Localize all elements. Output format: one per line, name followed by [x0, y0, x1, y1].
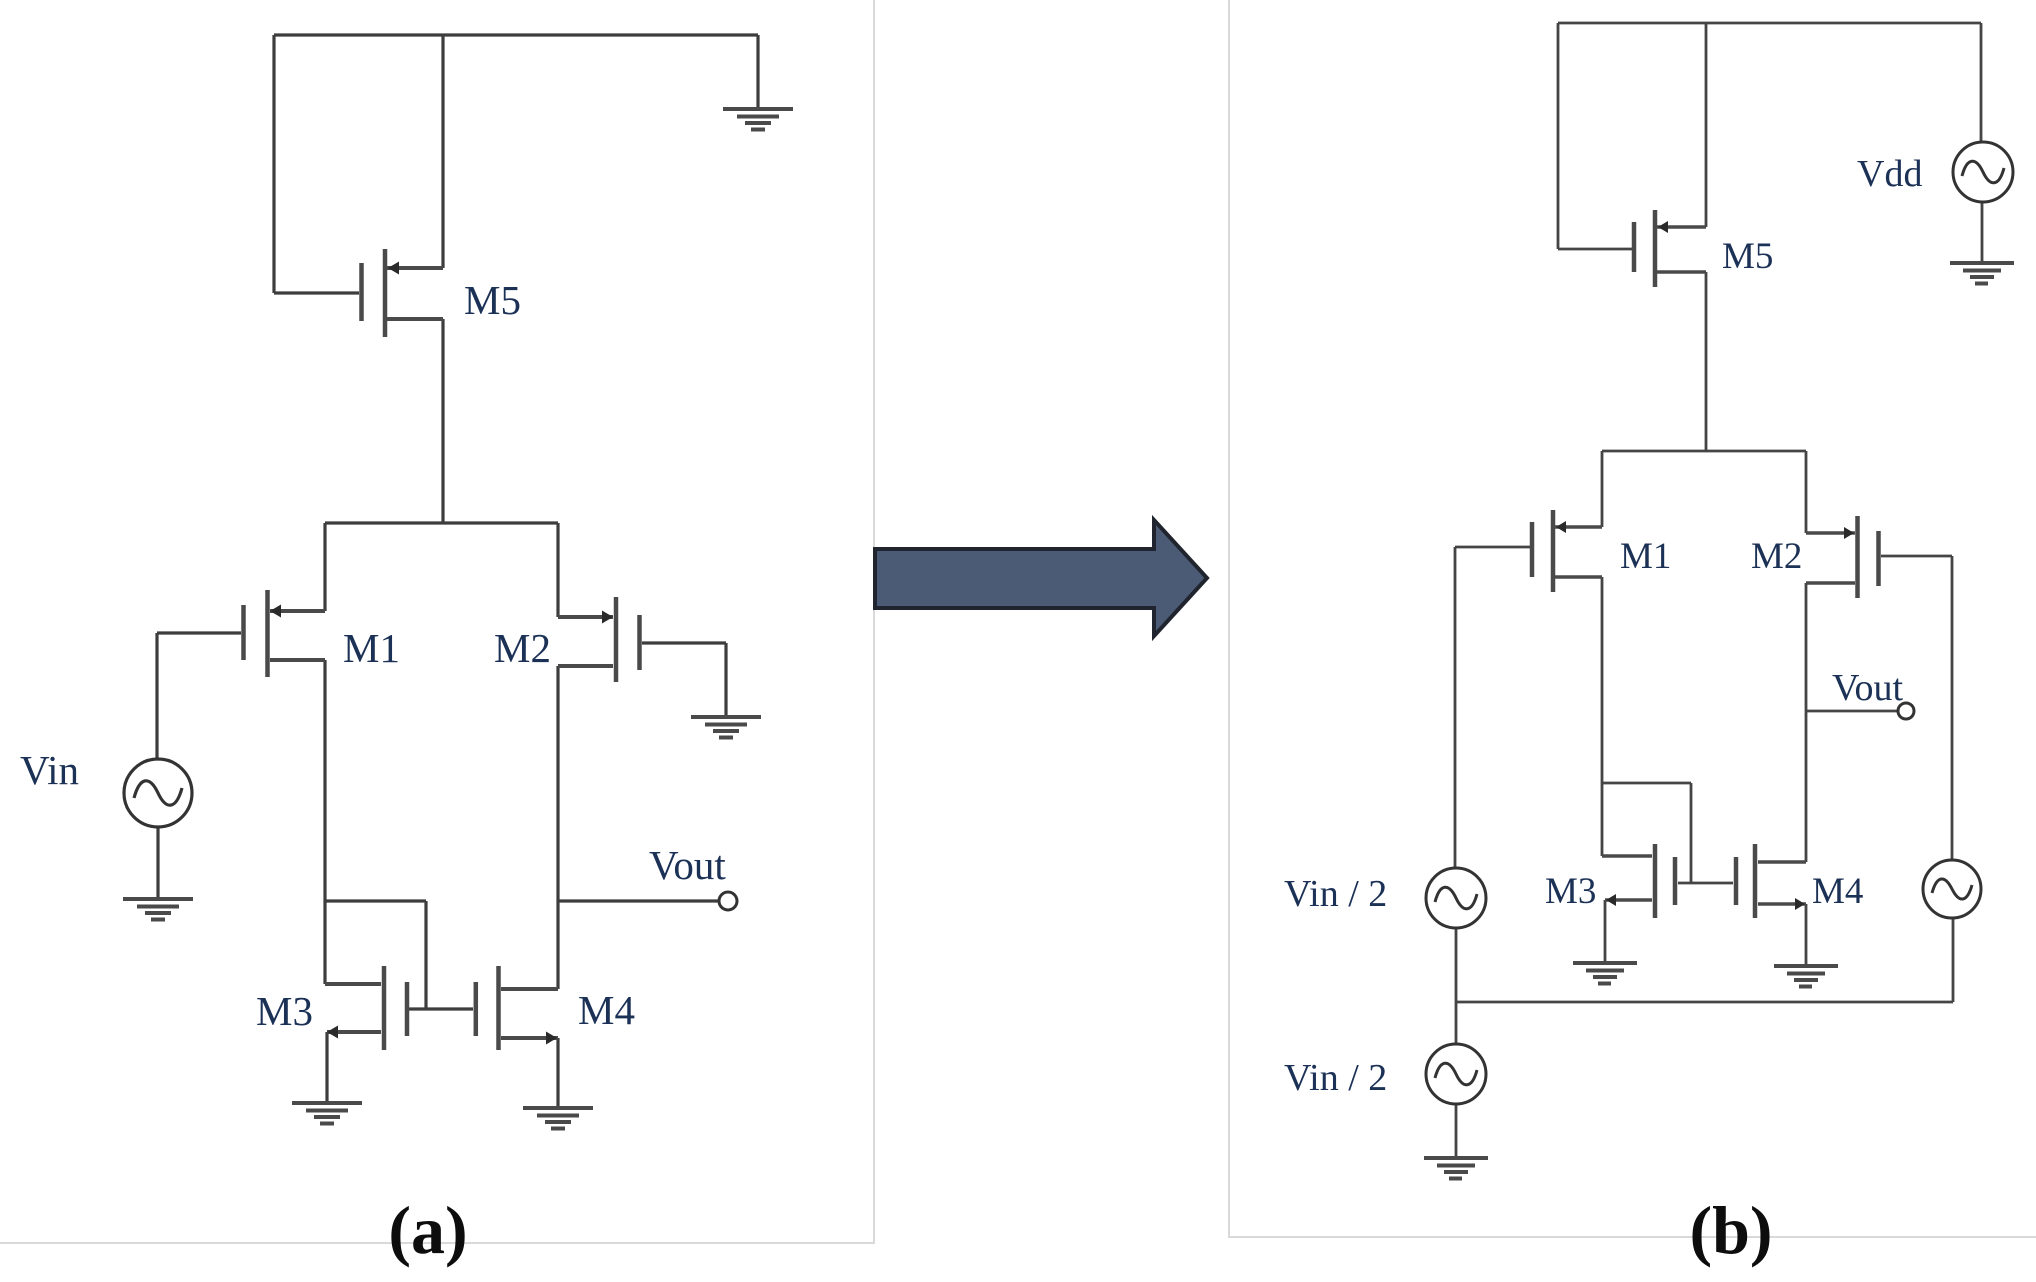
- transistor M2 (b): [1806, 516, 1879, 598]
- svg-text:M4: M4: [1812, 871, 1863, 912]
- wire: (b) M3 drain-gate tie horizontal: [1602, 782, 1691, 785]
- transform arrow between figures: [875, 520, 1207, 636]
- wire: (a) M2 source down to M4 drain / Vout node: [556, 666, 559, 989]
- wire: (a) M3 drain-gate tie horizontal: [325, 899, 426, 902]
- figure (b) frame border: [1229, 0, 2036, 1237]
- source upper Vin/2 (b): [1426, 868, 1486, 928]
- wire: (b) Vdd source to ground: [1981, 202, 1984, 263]
- svg-text:Vout: Vout: [1832, 667, 1904, 709]
- wire: (b) M5 source to diff-pair rail: [1705, 272, 1708, 451]
- wire: (a) M5 gate lead: [274, 291, 359, 294]
- wire: (a) rail to M2 drain: [556, 523, 559, 617]
- transistor M4 (a): [476, 966, 558, 1050]
- wire: (b) M5 gate lead: [1558, 248, 1632, 251]
- wire: (a) M1 gate lead to Vin: [157, 631, 241, 634]
- ground: (a) M3 source: [292, 1101, 362, 1126]
- wire: (b) right source up to M2 gate: [1951, 556, 1954, 860]
- wire: (a) top rail: [274, 33, 758, 36]
- ground: (a) M2 gate: [691, 715, 761, 740]
- wire: (a) M4 source to ground: [556, 1038, 559, 1108]
- wire: (a) top rail to ground drop: [756, 35, 759, 109]
- wire: (b) M3-M4 gate link: [1678, 882, 1733, 885]
- figure (a) frame border: [0, 0, 874, 1243]
- svg-text:M2: M2: [1751, 536, 1802, 577]
- wire: (b) M2 gate lead: [1881, 555, 1952, 558]
- wire: (b) Vout stub: [1806, 710, 1898, 713]
- wire: (b) rail to M1 drain: [1601, 451, 1604, 527]
- svg-text:(b): (b): [1689, 1192, 1772, 1268]
- wire: (b) top rail to M5 drain: [1705, 23, 1708, 227]
- source Vin (a): [124, 759, 192, 827]
- svg-text:M2: M2: [494, 625, 551, 671]
- wire: (b) M4 source to ground: [1805, 904, 1808, 966]
- wire: (b) feedback up to right source: [1952, 918, 1955, 1002]
- wire: (a) Vin source bottom lead: [156, 827, 159, 899]
- wire: (b) rail to M2 drain: [1805, 451, 1808, 533]
- wire: (a) Vout stub: [558, 899, 719, 902]
- wire: (a) M1 source down to M3 drain: [323, 660, 326, 984]
- svg-text:Vin / 2: Vin / 2: [1284, 873, 1387, 915]
- wire: (b) top rail down to Vdd source: [1980, 23, 1983, 142]
- svg-text:M3: M3: [256, 988, 313, 1034]
- ground: (b) lower Vin/2: [1424, 1156, 1488, 1181]
- svg-text:M1: M1: [343, 625, 400, 671]
- wire: (b) M3 source to ground: [1604, 900, 1607, 963]
- wire: (b) left vertical to M5 gate: [1557, 23, 1560, 249]
- wire: (a) M5 source to diff-pair rail: [441, 319, 444, 523]
- source right sine (b): [1923, 860, 1981, 918]
- svg-text:M3: M3: [1545, 871, 1596, 912]
- svg-text:Vin / 2: Vin / 2: [1284, 1057, 1387, 1099]
- wire: (b) between Vin/2 sources: [1455, 928, 1458, 1044]
- wire: (a) left vertical from top rail to M5 gate: [272, 35, 275, 293]
- svg-text:Vout: Vout: [649, 842, 726, 888]
- svg-text:M5: M5: [1722, 236, 1773, 277]
- transistor M5 (b): [1634, 210, 1706, 287]
- transistor M3 (b): [1602, 844, 1675, 918]
- wire: (b) lower Vin/2 source to ground: [1455, 1104, 1458, 1158]
- transistor M1 (a): [244, 590, 326, 677]
- wire: (a) vertical from top rail to M5 drain: [441, 35, 444, 268]
- svg-text:M5: M5: [464, 277, 521, 323]
- wire: (b) bottom feedback run: [1456, 1001, 1953, 1004]
- svg-text:M4: M4: [578, 987, 635, 1033]
- wire: (a) M2 gate lead: [642, 641, 726, 644]
- ground: (a) top right: [723, 107, 793, 132]
- transistor M3 (a): [325, 966, 407, 1050]
- transistor M1 (b): [1532, 510, 1602, 592]
- wire: (b) M3 drain-gate tie vertical: [1690, 783, 1693, 883]
- ground: (b) M4 source: [1774, 964, 1838, 989]
- source lower Vin/2 (b): [1426, 1044, 1486, 1104]
- node: (b) Vout open terminal: [1898, 703, 1914, 719]
- source Vdd (b): [1953, 142, 2013, 202]
- wire: (a) M2 gate to ground drop: [724, 643, 727, 717]
- wire: (b) M1 source down to M3 drain: [1601, 577, 1604, 856]
- wire: (b) M1 gate down to upper Vin/2 source: [1454, 547, 1457, 868]
- wire: (b) top rail: [1558, 22, 1981, 25]
- transistor M2 (a): [558, 597, 640, 682]
- svg-text:Vin: Vin: [20, 747, 79, 793]
- wire: (a) M3 drain-gate tie vertical: [424, 901, 427, 1009]
- wire: (a) diff pair top rail: [325, 521, 558, 524]
- wire: (a) M3 source to ground: [325, 1032, 328, 1103]
- svg-text:(a): (a): [388, 1192, 467, 1268]
- wire: (b) M2 source down to M4 drain / Vout node: [1805, 583, 1808, 862]
- wire: (a) M3-M4 gate link: [409, 1007, 473, 1010]
- wire: (b) M1 gate lead: [1455, 546, 1530, 549]
- ground: (a) M4 source: [523, 1106, 593, 1131]
- node: (a) Vout open terminal: [719, 892, 737, 910]
- svg-text:Vdd: Vdd: [1857, 153, 1922, 195]
- ground: (b) M3 source: [1573, 961, 1637, 986]
- wire: (a) Vin source top lead: [155, 633, 158, 760]
- wire: (b) diff pair rail: [1602, 450, 1806, 453]
- ground: (b) under Vdd: [1950, 261, 2014, 286]
- ground: (a) Vin source: [123, 897, 193, 922]
- transistor M5 (a): [362, 249, 444, 337]
- wire: (a) rail to M1 drain: [323, 523, 326, 611]
- svg-text:M1: M1: [1620, 536, 1671, 577]
- transistor M4 (b): [1736, 844, 1806, 918]
